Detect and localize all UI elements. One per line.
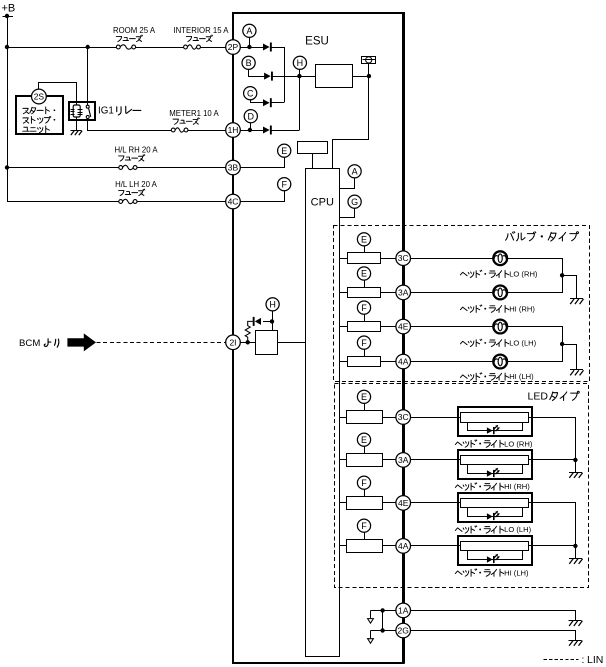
connector circle H (2I): [266, 298, 279, 311]
wire F stem (bulb row 3): [364, 314, 366, 321]
label H/L LH fuse (katakana): [119, 189, 145, 196]
connector circle A: [243, 24, 256, 37]
wire A-C bus vertical: [284, 47, 286, 103]
label H/L LH 20A: [115, 180, 158, 189]
wire pin 3A to bulb: [411, 292, 494, 294]
wire 1A-2G link: [382, 610, 384, 630]
box ESU: [232, 12, 405, 663]
label LED head-light LO (RH): [455, 439, 532, 448]
label H/L RH fuse (katakana): [119, 155, 145, 162]
wire bulb return: [508, 327, 563, 362]
resistor R (2I pull): [245, 321, 253, 342]
svg-text:3C: 3C: [398, 412, 409, 422]
svg-text:2P: 2P: [228, 42, 239, 52]
fuse METER1 10A: [171, 127, 188, 134]
svg-text:4A: 4A: [398, 357, 409, 367]
LED head-light unit HI (RH): [458, 450, 532, 479]
wire to ground (LED): [575, 546, 577, 558]
svg-text:ROOM 25 A: ROOM 25 A: [113, 26, 156, 35]
label ESU: [305, 36, 329, 48]
svg-text:F: F: [361, 338, 367, 348]
legend LIN text: [582, 654, 604, 666]
svg-text:LO (RH): LO (RH): [509, 270, 538, 279]
svg-text:F: F: [361, 521, 367, 531]
svg-text:C: C: [247, 88, 254, 98]
svg-text:E: E: [361, 392, 367, 402]
junction LED return: [573, 544, 577, 548]
fuse H/L LH 20A: [119, 198, 137, 205]
svg-text:H/L RH 20 A: H/L RH 20 A: [114, 146, 158, 155]
wire resistor to pin 3C (LED): [382, 417, 396, 419]
junction 2G: [380, 628, 384, 632]
connector circle F (bulb row 4): [357, 336, 370, 349]
wire pin 4A to LED unit: [411, 545, 461, 547]
wire diode to H node: [263, 321, 272, 323]
diode A: [263, 43, 272, 52]
connector circle G (CPU): [348, 195, 361, 208]
wire to ground (bulb): [563, 276, 577, 299]
label ROOM fuse (katakana): [116, 35, 142, 42]
wire LIN from BCM (dashed): [97, 342, 226, 344]
label ROOM 25A: [113, 26, 156, 35]
svg-text:H: H: [269, 300, 276, 310]
label H/L RH 20A: [114, 146, 158, 155]
pin 3C (LED): [396, 410, 411, 425]
wire H bus vertical: [299, 69, 301, 130]
wire 1A left: [371, 610, 396, 612]
arrow BCM input: [67, 333, 96, 351]
arrow body ground stub 2G: [368, 631, 374, 644]
svg-text:HI (RH): HI (RH): [509, 304, 535, 313]
label head-light LO (RH): [460, 270, 537, 279]
svg-text:E: E: [361, 435, 367, 445]
wire CPU to A: [340, 179, 355, 189]
node +B (battery feed): [2, 3, 16, 19]
wire relay to 1H: [88, 119, 226, 131]
wire diode D to H bus: [272, 130, 300, 132]
wire relay coil to ground: [76, 121, 78, 131]
wire 1H to diode D: [240, 130, 263, 132]
relay IG1 switch: [86, 47, 91, 121]
wire H/L RH row: [7, 167, 226, 169]
fuse H/L RH 20A: [119, 164, 137, 171]
junction D/1H: [248, 128, 252, 132]
connector circle A (CPU): [348, 165, 361, 178]
connector circle F (4C): [278, 178, 291, 191]
svg-text:2S: 2S: [34, 92, 45, 102]
connector circle E (LED row 2): [357, 433, 370, 446]
wire diode B to H node: [273, 76, 316, 78]
junction LED return: [573, 458, 577, 462]
wire pin 3C to bulb: [411, 258, 494, 260]
wire 3B to E: [241, 158, 285, 168]
wire pin 3C to LED unit: [411, 417, 461, 419]
svg-text::: :: [582, 654, 585, 666]
wire resistor to pin 4A (LED): [382, 545, 396, 547]
pin 4E (LED): [396, 496, 411, 511]
pin 4E (bulb): [396, 319, 411, 334]
svg-text:LIN: LIN: [587, 654, 603, 666]
wire H node to driver box: [272, 321, 274, 331]
svg-text:LO (LH): LO (LH): [509, 339, 536, 348]
pin 3B: [226, 160, 241, 175]
pin 2G: [396, 623, 411, 638]
label METER1 10A: [169, 109, 219, 118]
label BCM yori: [19, 338, 59, 349]
resistor block (LED row 4E): [347, 497, 383, 510]
connector circle E (LED row 1): [357, 390, 370, 403]
connector circle F (LED row 4): [357, 519, 370, 532]
label CPU: [311, 197, 334, 209]
wire resistor to pin 4E: [381, 326, 396, 328]
wire LED return lower: [528, 459, 575, 461]
wire CPU to G: [340, 209, 355, 218]
svg-text:ESU: ESU: [305, 36, 329, 48]
wire 4C to F: [241, 191, 285, 202]
connector circle H (top): [293, 56, 306, 69]
label LED head-light LO (LH): [455, 525, 531, 534]
svg-text:INTERIOR 15 A: INTERIOR 15 A: [173, 26, 229, 35]
svg-text:IG1: IG1: [98, 106, 114, 117]
wire CPU to resistor (LED row 4E): [339, 502, 346, 504]
pin 4A (bulb): [396, 354, 411, 369]
wire 2P to diode A: [240, 47, 263, 49]
svg-text:G: G: [351, 197, 358, 207]
junction +B/relay: [86, 45, 90, 49]
ground (IG1 relay): [70, 131, 82, 136]
wire bulb return: [508, 259, 563, 293]
svg-text:E: E: [281, 146, 287, 156]
connector circle E (3B): [278, 144, 291, 157]
box driver (2I): [256, 331, 278, 355]
svg-text:3A: 3A: [398, 455, 409, 465]
connector circle F (LED row 3): [357, 476, 370, 489]
LED head-light unit LO (RH): [458, 407, 532, 436]
resistor block (bulb row 3C): [348, 253, 381, 264]
junction +B feed: [5, 45, 9, 49]
svg-text:BCM: BCM: [19, 338, 40, 349]
LED head-light unit LO (LH): [458, 493, 532, 522]
label INTERIOR fuse (katakana): [186, 35, 212, 42]
pin 2P: [226, 40, 241, 55]
wire resistor to pin 3C: [381, 258, 396, 260]
wire pin 4A to bulb: [411, 361, 494, 363]
wire F stem (LED row 3): [364, 489, 366, 496]
label METER1 fuse (katakana): [173, 118, 199, 125]
svg-text:LO (LH): LO (LH): [504, 525, 531, 534]
ground (LED pair): [569, 559, 583, 564]
junction 1A: [380, 608, 384, 612]
svg-text:HI (LH): HI (LH): [509, 372, 534, 381]
fuse ROOM 25A: [116, 44, 135, 51]
svg-text:1A: 1A: [398, 605, 409, 615]
svg-text:LO (RH): LO (RH): [504, 439, 533, 448]
pin 2S: [32, 89, 47, 104]
svg-text:4E: 4E: [398, 322, 409, 332]
svg-text:4A: 4A: [398, 541, 409, 551]
ground (bulb pair): [570, 370, 584, 376]
wire to ground (bulb): [563, 345, 577, 370]
wire C stem: [251, 100, 264, 103]
wire pin 4E to LED unit: [411, 502, 461, 504]
wire sensor node to CPU: [333, 64, 369, 169]
lamp head-light LO (LH): [493, 320, 507, 334]
ground (2G): [569, 641, 583, 646]
connector circle E (bulb row 1): [357, 233, 370, 246]
label head-light HI (RH): [460, 304, 535, 313]
diode (2I clamp, left): [253, 317, 261, 326]
pin 1H: [226, 123, 241, 138]
svg-text:H: H: [297, 58, 304, 68]
wire CPU to resistor (bulb row 4A): [339, 361, 347, 363]
wire E stem (LED row 2): [364, 446, 366, 453]
connector circle E (bulb row 2): [357, 267, 370, 280]
svg-text:B: B: [246, 58, 252, 68]
relay IG1 coil: [70, 102, 82, 121]
diode C: [263, 98, 272, 107]
wire D stem: [250, 123, 252, 130]
ground (bulb pair): [570, 299, 584, 305]
junction bulb return: [560, 342, 564, 346]
wire resistor to pin 3A (LED): [382, 459, 396, 461]
svg-text:D: D: [248, 111, 255, 121]
fuse INTERIOR 15A: [184, 44, 201, 51]
box sub-module (above CPU): [298, 142, 328, 154]
ground (1A): [569, 621, 583, 627]
svg-text:4E: 4E: [398, 498, 409, 508]
connector circle B: [242, 56, 255, 69]
lamp head-light HI (RH): [493, 286, 507, 300]
junction bulb return: [560, 273, 564, 277]
svg-text:F: F: [361, 303, 367, 313]
box regulator (ESU input): [316, 65, 353, 88]
wire driver to CPU: [278, 342, 306, 344]
resistor block (bulb row 3A): [348, 288, 381, 298]
wire F stem (LED row 4): [364, 532, 366, 539]
pin 4A (LED): [396, 539, 411, 554]
svg-text:+B: +B: [2, 3, 16, 15]
connector circle D: [244, 110, 257, 123]
wire 2S to relay coil: [39, 83, 77, 102]
wire 1A to ground: [411, 611, 576, 621]
resistor block (bulb row 4A): [348, 357, 381, 367]
resistor block (bulb row 4E): [348, 322, 381, 332]
wire CPU to resistor (LED row 3C): [339, 417, 346, 419]
svg-text:A: A: [352, 167, 358, 177]
wire regulator to sensor node: [352, 76, 369, 78]
wire LED return upper: [529, 418, 576, 460]
svg-text:HI (RH): HI (RH): [504, 482, 530, 491]
wire B stem: [249, 70, 265, 77]
wire sub-module to CPU: [312, 154, 314, 169]
wire resistor to pin 4A: [381, 361, 396, 363]
svg-text:3C: 3C: [398, 253, 409, 263]
svg-text:1H: 1H: [228, 125, 239, 135]
svg-text:E: E: [361, 269, 367, 279]
junction H/driver: [270, 319, 274, 323]
component monitor symbol: [362, 57, 376, 64]
wire 2G to ground: [411, 631, 576, 641]
wire CPU to resistor (LED row 4A): [339, 545, 346, 547]
svg-text:F: F: [281, 179, 287, 189]
wire LED return upper: [529, 503, 576, 546]
wire E stem (bulb row 1): [364, 246, 366, 253]
junction feed/HL-RH: [5, 165, 9, 169]
legend LIN dashed sample: [544, 659, 579, 661]
pin 3C (bulb): [396, 251, 411, 266]
pin 2I: [226, 335, 241, 350]
wire CPU to resistor (LED row 3A): [339, 459, 346, 461]
wire H/L LH row: [7, 201, 226, 203]
svg-text:CPU: CPU: [311, 197, 334, 209]
pin 1A: [396, 603, 411, 618]
wire CPU to resistor (bulb row 3A): [339, 292, 347, 294]
unit 2S start-stop box: [16, 96, 63, 134]
wire pin 3A to LED unit: [411, 459, 461, 461]
wire CPU to resistor (bulb row 3C): [339, 258, 347, 260]
box LED-type (dashed): [335, 384, 589, 588]
label bulb-type: [506, 232, 579, 241]
LED head-light unit HI (LH): [458, 536, 532, 565]
wire resistor to pin 4E (LED): [382, 502, 396, 504]
label LED head-light HI (RH): [455, 482, 530, 491]
svg-text:2G: 2G: [398, 626, 409, 636]
connector circle F (bulb row 3): [357, 301, 370, 314]
lamp head-light LO (RH): [493, 251, 507, 265]
label head-light LO (LH): [460, 339, 536, 348]
wire +B vertical feed: [7, 16, 9, 202]
wire LED return lower: [528, 545, 575, 547]
wire diode A to bus: [272, 47, 285, 49]
wire A stem: [249, 37, 251, 47]
svg-text:F: F: [361, 478, 367, 488]
wire E stem (bulb row 2): [364, 280, 366, 287]
svg-text:3B: 3B: [228, 163, 239, 173]
svg-text:LED: LED: [528, 390, 549, 402]
pin 3A (bulb): [396, 285, 411, 300]
label LED head-light HI (LH): [455, 568, 529, 577]
svg-text:E: E: [361, 235, 367, 245]
label INTERIOR 15A: [173, 26, 229, 35]
wire H stem (2I): [272, 311, 274, 321]
relay IG1 box: [69, 102, 95, 120]
box CPU: [306, 169, 340, 657]
label LED-type: [528, 390, 580, 402]
label head-light HI (LH): [460, 372, 534, 381]
wire E stem (LED row 1): [364, 403, 366, 410]
junction sensor node: [367, 74, 371, 78]
label start-stop-unit text: [23, 107, 56, 133]
label IG1 relay: [98, 106, 141, 117]
resistor block (LED row 3C): [347, 411, 383, 424]
wire +B row to 2P: [7, 47, 226, 49]
pin 4C: [226, 194, 241, 209]
wire CPU to resistor (bulb row 4E): [339, 326, 347, 328]
lamp head-light HI (LH): [493, 355, 507, 369]
arrow body ground stub 1A: [368, 610, 374, 623]
wire 2I to driver box: [240, 342, 255, 344]
svg-text:METER1 10 A: METER1 10 A: [169, 109, 219, 118]
pin 3A (LED): [396, 453, 411, 468]
wire 2G left: [371, 630, 396, 632]
ground (LED pair): [569, 473, 583, 478]
junction H/B: [297, 74, 301, 78]
wire resistor to pin 3A: [381, 292, 396, 294]
resistor block (LED row 3A): [347, 454, 383, 467]
junction 2I/resistor: [246, 340, 250, 344]
svg-text:HI (LH): HI (LH): [504, 568, 529, 577]
wire F stem (bulb row 4): [364, 349, 366, 356]
svg-text:2I: 2I: [229, 337, 236, 347]
svg-text:4C: 4C: [228, 197, 239, 207]
svg-text:A: A: [246, 26, 252, 36]
svg-text:3A: 3A: [398, 287, 409, 297]
resistor block (LED row 4A): [347, 540, 383, 553]
diode D: [263, 126, 272, 135]
box bulb-type (dashed): [334, 226, 590, 382]
diode B: [264, 72, 273, 81]
connector circle C: [244, 87, 257, 100]
wire pin 4E to bulb: [411, 326, 494, 328]
svg-text:H/L LH 20 A: H/L LH 20 A: [115, 180, 158, 189]
wire to ground (LED): [575, 460, 577, 472]
wire diode C to bus: [272, 102, 285, 104]
junction A/2P: [247, 45, 251, 49]
